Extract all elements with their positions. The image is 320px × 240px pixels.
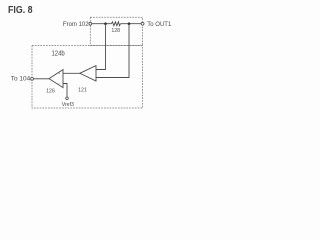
wire: resistor to OUT terminal bbox=[121, 23, 142, 25]
terminal To 104 bbox=[31, 77, 34, 80]
dashed block 124b (outer box) bbox=[32, 46, 143, 109]
svg-text:121: 121 bbox=[78, 88, 87, 94]
resistor 128 bbox=[111, 22, 120, 26]
wire: 121 output to 126 input bbox=[63, 72, 80, 74]
op-amp 121 (points left) bbox=[80, 66, 96, 81]
svg-text:124b: 124b bbox=[52, 51, 65, 58]
wire: 126 output to To 104 terminal bbox=[33, 78, 49, 80]
terminal To OUT1 bbox=[141, 22, 144, 25]
svg-text:+: + bbox=[58, 72, 60, 76]
junction dot left bbox=[104, 22, 107, 25]
svg-text:From 102: From 102 bbox=[63, 22, 89, 28]
svg-text:Vref3: Vref3 bbox=[62, 102, 74, 108]
svg-text:126: 126 bbox=[46, 88, 55, 94]
svg-text:FIG. 8: FIG. 8 bbox=[8, 5, 33, 16]
svg-text:128: 128 bbox=[111, 28, 120, 34]
svg-text:To OUT1: To OUT1 bbox=[147, 22, 172, 28]
svg-text:To 104: To 104 bbox=[11, 76, 31, 82]
wire: 126 minus input stub to Vref3 bbox=[63, 84, 67, 97]
junction dot right bbox=[128, 22, 131, 25]
wire: left tap down to comparator 121 top input bbox=[96, 24, 106, 70]
svg-text:−: − bbox=[58, 82, 60, 86]
terminal Vref3 bbox=[66, 97, 69, 100]
wire: right tap down to comparator 121 bottom input bbox=[96, 24, 129, 78]
terminal From 102 bbox=[89, 22, 92, 25]
op-amp 126 (points left) bbox=[49, 70, 63, 88]
wire: From terminal to resistor bbox=[92, 23, 112, 25]
dashed block top (sense-resistor box) bbox=[90, 17, 142, 45]
